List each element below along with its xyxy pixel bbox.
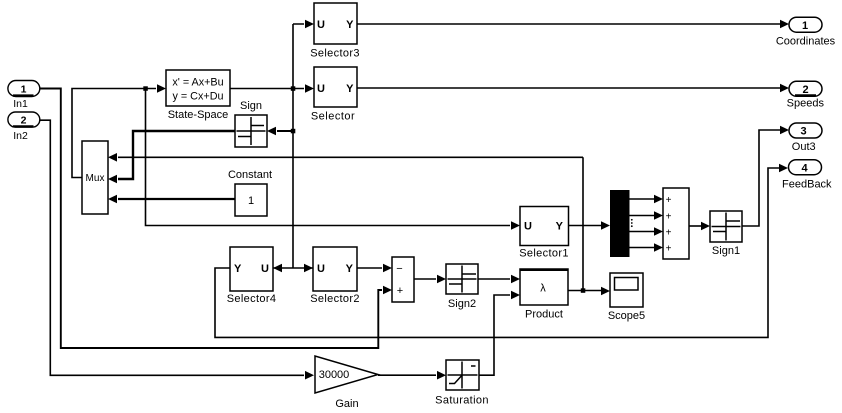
wire In1 to sum2 plus input xyxy=(40,89,382,349)
selector block Selector4 (mirrored) xyxy=(227,247,277,305)
product block Product xyxy=(520,269,568,321)
scope block Scope5 xyxy=(608,273,645,322)
svg-text:U: U xyxy=(261,263,269,275)
svg-text:Y: Y xyxy=(346,19,354,31)
svg-text:Gain: Gain xyxy=(335,398,358,410)
wire Selector3 output to Coordinates port xyxy=(357,23,780,25)
wire between Selector4 and Selector2 xyxy=(273,267,313,269)
arrowhead into FeedBack port xyxy=(779,164,788,173)
svg-text:Y: Y xyxy=(234,263,242,275)
svg-text:FeedBack: FeedBack xyxy=(782,178,832,190)
wire Mux output to State-Space input xyxy=(72,89,156,178)
svg-text:Constant: Constant xyxy=(228,169,272,181)
outport Speeds xyxy=(787,81,825,109)
outport Out3 xyxy=(789,123,822,153)
svg-text:2: 2 xyxy=(802,84,808,96)
svg-text:y = Cx+Du: y = Cx+Du xyxy=(172,90,223,102)
arrowhead into Selector4 (left pointing) xyxy=(273,264,282,273)
arrowhead into Saturation xyxy=(437,371,446,380)
outport Coordinates xyxy=(776,17,836,47)
wire Demux output 1 to sum4 xyxy=(630,198,655,200)
svg-text:Y: Y xyxy=(346,263,354,275)
svg-text:Y: Y xyxy=(346,83,354,95)
junction dot at Mux-to-StateSpace branch xyxy=(143,86,148,91)
arrowhead into sum4 input 4 xyxy=(654,243,663,252)
svg-text:Product: Product xyxy=(525,309,563,321)
outport FeedBack xyxy=(782,160,832,191)
arrowhead into Sign (left pointing) xyxy=(267,127,276,136)
svg-text:30000: 30000 xyxy=(319,369,350,381)
selector block Selector1 xyxy=(519,207,569,260)
demux block (solid) xyxy=(610,190,633,257)
svg-text:Selector: Selector xyxy=(311,111,355,123)
wire long feedback line to Mux input 1 xyxy=(118,157,583,290)
wire sum4 output to Sign1 xyxy=(689,225,701,227)
wire Selector4 output to FeedBack port xyxy=(215,168,779,337)
wire Sign1 output to Out3 port xyxy=(742,130,780,226)
arrowhead into Selector xyxy=(305,84,314,93)
svg-text:U: U xyxy=(317,19,325,31)
svg-text:2: 2 xyxy=(21,114,27,126)
wire Product output to Scope5 xyxy=(568,290,601,292)
junction dot at Product output branch xyxy=(581,288,586,293)
svg-text:x' = Ax+Bu: x' = Ax+Bu xyxy=(172,76,223,88)
inport In1 xyxy=(8,81,40,110)
wire Demux output 3 to sum4 xyxy=(630,231,655,233)
svg-text:In1: In1 xyxy=(13,98,28,110)
constant block Constant value 1 xyxy=(228,169,272,216)
junction dot at State-Space output xyxy=(291,86,296,91)
arrowhead into Selector1 xyxy=(511,221,520,230)
wire In2 to Gain xyxy=(39,120,304,375)
arrowhead into sum2 minus xyxy=(383,264,392,273)
arrowhead into sum4 input 1 xyxy=(654,195,663,204)
svg-text:3: 3 xyxy=(800,126,806,138)
sum block sum4 four plus xyxy=(663,188,689,259)
sign block Sign1 xyxy=(710,211,742,257)
svg-text:U: U xyxy=(524,221,532,233)
svg-text:+: + xyxy=(666,211,672,222)
sum block sum2 minus plus xyxy=(392,257,414,302)
sign block Sign2 xyxy=(446,264,478,310)
arrowhead into Selector2 xyxy=(304,264,313,273)
wire Selector2 output to sum2 minus input xyxy=(357,267,382,269)
svg-text:Out3: Out3 xyxy=(792,141,816,153)
svg-text:In2: In2 xyxy=(13,130,28,142)
arrowhead into Speeds port xyxy=(780,84,789,93)
svg-text:Y: Y xyxy=(556,221,564,233)
wire Demux output 2 to sum4 xyxy=(630,215,655,217)
arrowhead into Coordinates port xyxy=(780,20,789,29)
arrowhead into Out3 port xyxy=(780,126,789,135)
arrowhead into sum2 plus xyxy=(383,286,392,295)
selector block Selector xyxy=(311,67,357,123)
svg-text:+: + xyxy=(397,285,403,297)
svg-text:+: + xyxy=(666,243,672,254)
wire Demux output 4 to sum4 xyxy=(630,247,655,249)
inport In2 xyxy=(8,112,40,142)
arrowhead into Mux input 2 xyxy=(108,175,117,184)
wire Sign output to Mux input 2 xyxy=(118,131,235,179)
wire State-Space output to Selector input xyxy=(230,88,304,90)
arrowhead into Selector3 xyxy=(305,20,314,29)
svg-text:Sign1: Sign1 xyxy=(712,245,740,257)
wire Selector1 output to Demux xyxy=(569,225,602,227)
wire Selector output to Speeds port xyxy=(357,87,780,89)
svg-text:+: + xyxy=(666,195,672,206)
wire vertical net from Selector3 down to Selector4/Selector2 xyxy=(293,24,304,268)
junction dot at Sign input branch xyxy=(291,129,296,134)
arrowhead into Mux input 3 xyxy=(108,195,117,204)
sign block Sign xyxy=(235,100,267,147)
arrowhead into Mux input 1 xyxy=(108,153,117,162)
arrowhead into State-Space xyxy=(157,84,166,93)
arrowhead into Sign2 xyxy=(437,275,446,284)
svg-text:Speeds: Speeds xyxy=(787,97,825,109)
svg-text:1: 1 xyxy=(248,195,254,207)
arrowhead into Product input 1 xyxy=(511,275,520,284)
wire sum2 output to Sign2 xyxy=(414,278,436,280)
svg-text:Sign: Sign xyxy=(240,100,262,112)
svg-text:Saturation: Saturation xyxy=(435,395,489,407)
selector block Selector3 xyxy=(310,3,360,60)
wire into Sign input xyxy=(277,130,293,132)
gain block Gain 30000 xyxy=(315,356,378,410)
svg-text:λ: λ xyxy=(540,283,546,295)
arrowhead into sum4 input 3 xyxy=(654,227,663,236)
svg-text:Sign2: Sign2 xyxy=(448,298,476,310)
svg-text:U: U xyxy=(317,263,325,275)
svg-text:Coordinates: Coordinates xyxy=(776,36,836,48)
arrowhead into Scope5 xyxy=(601,287,610,296)
arrowhead into Sign1 xyxy=(701,222,710,231)
mux Mux xyxy=(82,141,108,214)
wire Constant output to Mux input 3 xyxy=(118,198,235,200)
svg-text:U: U xyxy=(317,83,325,95)
svg-text:−: − xyxy=(396,263,402,275)
svg-text:Scope5: Scope5 xyxy=(608,310,645,322)
arrowhead into Product input 2 xyxy=(511,291,520,300)
svg-text:1: 1 xyxy=(21,83,27,95)
svg-text:Selector4: Selector4 xyxy=(227,293,277,305)
selector block Selector2 xyxy=(310,247,360,305)
svg-text:Selector2: Selector2 xyxy=(310,293,360,305)
arrowhead into Demux xyxy=(601,221,610,230)
wire Sign2 output to Product input 1 xyxy=(478,278,510,280)
svg-text:Selector1: Selector1 xyxy=(519,248,569,260)
wire branch to Selector1 input xyxy=(146,89,511,226)
svg-text:1: 1 xyxy=(802,20,808,32)
wire Gain output to Saturation xyxy=(378,374,436,376)
svg-text:+: + xyxy=(666,227,672,238)
svg-text:Selector3: Selector3 xyxy=(310,48,360,60)
svg-text:4: 4 xyxy=(801,162,808,174)
arrowhead into Gain xyxy=(305,371,314,380)
wire Saturation output to Product input 2 xyxy=(479,295,510,375)
arrowhead into sum4 input 2 xyxy=(654,211,663,220)
svg-text:Mux: Mux xyxy=(86,173,105,184)
saturation block Saturation xyxy=(435,360,489,407)
svg-text:State-Space: State-Space xyxy=(168,109,229,121)
state-space block State-Space xyxy=(166,70,230,121)
